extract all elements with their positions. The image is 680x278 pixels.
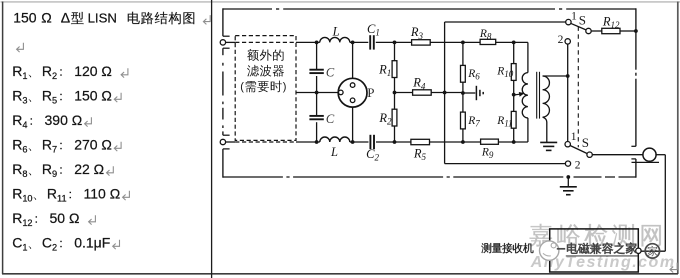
wire: bottom row filter box to inductor L (296, 141, 320, 143)
svg-text:Δ: Δ (61, 10, 70, 26)
tap arrow from R10-R11 node to transformer (514, 93, 520, 96)
svg-text:R1: R1 (12, 63, 27, 81)
coax feedthrough connector circle on enclosure wall (643, 148, 656, 161)
junction dot bottom of C branch (315, 140, 319, 144)
wire: top row filter box to inductor L (296, 41, 320, 43)
main vertical bus wire (444, 22, 446, 164)
wire: switch terminal 2 (top) down to transformer node and to S2 terminal 1 (567, 44, 569, 141)
svg-text:390 Ω: 390 Ω (45, 112, 83, 128)
svg-text:LISN: LISN (88, 11, 117, 26)
junction dot middle of C branch (315, 91, 319, 95)
svg-text:R5: R5 (42, 87, 57, 105)
resistor R8 (480, 39, 496, 44)
junction dot bus at R4 row (443, 91, 447, 95)
svg-text:R10: R10 (12, 185, 32, 203)
capacitor C (upper) (309, 69, 323, 71)
switch S2 blade (570, 145, 588, 153)
svg-text:L: L (330, 145, 338, 159)
junction dot R10-R11 node (512, 93, 516, 97)
svg-text:R9: R9 (42, 161, 57, 179)
svg-text:1: 1 (571, 10, 577, 22)
svg-text:R2: R2 (378, 111, 392, 127)
enclosure left wall upper segment with flange (222, 8, 224, 36)
switch S1 terminal 2 (565, 39, 570, 44)
wire: P branch vertical top (352, 42, 354, 78)
svg-text:R11: R11 (496, 115, 512, 129)
junction dot R12 at wall (634, 29, 638, 33)
wire: R3 to R8 through bus (430, 41, 480, 43)
wire: bus top to switch S1 terminal 1 (445, 21, 566, 23)
wire: R8 to transformer top (496, 41, 528, 43)
svg-text:P: P (367, 85, 374, 100)
ganged switch dashed link (577, 27, 579, 148)
watermark circular seal logo (645, 244, 659, 258)
wire: middle row filter box to connector P (296, 92, 338, 94)
ground symbol below transformer secondary (540, 141, 557, 143)
svg-text:R6: R6 (467, 68, 480, 82)
svg-text:C: C (326, 112, 335, 126)
junction dots on bottom row at R6 and R10 branches (461, 140, 465, 144)
junction dot transformer secondary top (566, 74, 570, 78)
watermark big gray text (530, 224, 552, 247)
junction dot R1-R2 node (393, 91, 397, 95)
svg-text:22 Ω: 22 Ω (74, 161, 104, 177)
wire: C1 to R3 (376, 41, 412, 43)
watermark dark text dian ci jian rong zhi jia (557, 248, 565, 250)
switch S2 pole (587, 152, 592, 157)
enclosure left wall lower segment (223, 148, 230, 150)
svg-text:S: S (579, 12, 586, 27)
switch S1 pole (586, 28, 591, 33)
capacitor branch vertical wire (316, 42, 318, 69)
resistor R6 (461, 65, 466, 82)
resistor R3 (412, 40, 431, 45)
svg-text:0.1μF: 0.1μF (74, 234, 110, 250)
wire: R12 to enclosure wall (620, 30, 636, 32)
svg-text:120 Ω: 120 Ω (74, 63, 112, 79)
resistor R1 (392, 61, 397, 78)
svg-text:R1: R1 (378, 62, 391, 78)
resistor R9 (481, 139, 499, 144)
svg-text:Ω: Ω (41, 10, 51, 26)
svg-text:C1: C1 (367, 22, 380, 38)
blank line return mark (17, 43, 24, 52)
capacitor C (lower) (309, 115, 323, 117)
switch S1 blade (571, 23, 587, 30)
transformer T core (536, 72, 538, 119)
svg-text:R7: R7 (467, 115, 480, 129)
svg-text:(: ( (240, 81, 244, 93)
svg-text:2: 2 (575, 159, 581, 171)
capacitor C1 (369, 35, 371, 49)
svg-text:R12: R12 (602, 15, 620, 31)
terminal P2 (line in) (220, 139, 225, 144)
wire: top row from terminal P1 through filter (dashed inside box) (226, 41, 236, 43)
ground symbol on enclosure bottom wall (566, 175, 570, 179)
svg-text:C2: C2 (42, 234, 57, 252)
junction dots on top row at R6 and R10 branches (461, 41, 465, 45)
wire: L to C2 (350, 141, 369, 143)
transformer T primary winding (left) (527, 42, 529, 72)
wire: R9 to transformer bottom (498, 141, 528, 143)
junction dot top of P branch (351, 41, 355, 45)
svg-text:R2: R2 (42, 63, 57, 81)
wire: bottom row from terminal P2 through filter (dashed inside box) (226, 141, 236, 143)
inductor L (bottom) (320, 137, 350, 142)
svg-text:R8: R8 (479, 28, 492, 42)
svg-text:L: L (332, 24, 340, 38)
svg-text:R3: R3 (410, 25, 424, 41)
wire: P branch vertical bottom (352, 107, 354, 142)
svg-text:1: 1 (571, 131, 577, 143)
svg-text:C2: C2 (366, 147, 379, 163)
svg-text:C1: C1 (12, 234, 27, 252)
resistor R4 (413, 90, 432, 95)
svg-text:R6: R6 (12, 136, 27, 154)
capacitor C2 (369, 135, 371, 149)
filter box label line 2 (247, 65, 259, 77)
svg-text:R7: R7 (42, 136, 57, 154)
connector P circle (338, 78, 367, 107)
wire: S2 pole to coax feedthrough (592, 154, 643, 156)
svg-text:C: C (326, 66, 335, 80)
svg-text:R11: R11 (47, 185, 67, 203)
wire: feedthrough to receiver (right then down) (655, 154, 665, 156)
svg-text:R9: R9 (481, 147, 494, 161)
chassis ground symbol (pointing right) at R6-R7 node (463, 92, 475, 94)
measuring receiver box (550, 229, 639, 272)
wire: S1 pole to R12 (591, 30, 602, 32)
resistor R10 (511, 64, 516, 81)
svg-text:R4: R4 (412, 76, 426, 92)
svg-text:150 Ω: 150 Ω (74, 87, 112, 103)
resistor R5 (411, 139, 430, 144)
wire: R4 row from R1R2 node to R6R7 node (395, 92, 414, 94)
terminal P1 (line in) (220, 40, 225, 45)
resistor R12 (602, 28, 620, 33)
wire: C2 to R5 (376, 141, 411, 143)
wire: L to C1 (350, 41, 369, 43)
svg-text:50 Ω: 50 Ω (50, 210, 80, 226)
svg-text:R3: R3 (12, 87, 27, 105)
junction dot R6-R7 node (461, 91, 465, 95)
switch S1 terminal 1 (566, 19, 571, 24)
transformer T secondary winding (right) (543, 75, 568, 77)
R1 R2 branch vertical wire (394, 42, 396, 61)
filter box label line 1 (247, 49, 259, 61)
resistor R11 (511, 111, 516, 128)
enclosure bottom wall (dash-dot) (223, 176, 636, 178)
switch S2 terminal 1 (565, 142, 570, 147)
enclosure left wall middle segment (dash-dot) (223, 47, 230, 49)
svg-text:R8: R8 (12, 161, 27, 179)
svg-text:110 Ω: 110 Ω (84, 185, 121, 201)
resistor R7 (461, 112, 466, 129)
filter box (dashed): extra filter when needed (235, 36, 296, 141)
svg-text:R5: R5 (413, 147, 427, 163)
svg-text:270 Ω: 270 Ω (74, 136, 112, 152)
junction dot top of C branch (315, 41, 319, 45)
inductor L (top) (320, 37, 350, 42)
svg-text:R12: R12 (12, 210, 32, 228)
page frame (1, 1, 680, 3)
label: measuring receiver (481, 243, 491, 253)
svg-text:R4: R4 (12, 112, 27, 130)
junction dot top of R1 (393, 41, 397, 45)
junction dot bottom of P branch (351, 140, 355, 144)
enclosure right wall lower segment (631, 158, 636, 160)
connector P pins (350, 83, 355, 88)
svg-text:): ) (283, 81, 287, 93)
junction dot bottom of R2 (393, 140, 397, 144)
wire: R5 to R9 through bus (429, 141, 481, 143)
panel divider (211, 0, 213, 278)
svg-text:S: S (582, 135, 589, 150)
svg-text:2: 2 (558, 34, 564, 46)
wire: bus bottom to switch S2 terminal 2 (445, 163, 566, 165)
switch S2 terminal 2 (565, 161, 570, 166)
gray return mark bottom right (670, 263, 677, 273)
receiver input connector circle (636, 248, 641, 253)
R6 R7 branch vertical wire (462, 42, 464, 65)
resistor R2 (392, 109, 397, 126)
watermark logo circle (540, 241, 559, 260)
LISN shielded enclosure top wall (dash-dot) (223, 8, 272, 10)
R10 R11 branch vertical wire (513, 42, 515, 63)
feedthrough flange line (632, 161, 660, 163)
enclosure right wall upper segment (635, 8, 637, 69)
svg-text:150: 150 (13, 10, 37, 26)
